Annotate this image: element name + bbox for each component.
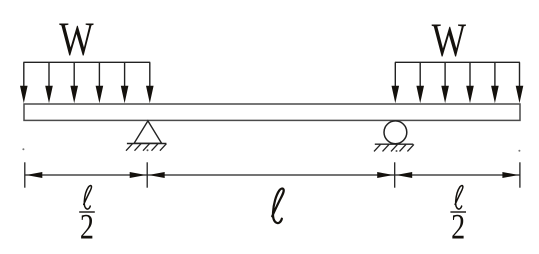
load left arrow 5 [121,62,129,103]
svg-text:2: 2 [451,206,465,246]
label l/2 left: fraction bar [79,211,95,213]
label l middle: ell [272,188,284,223]
label l/2 right: fraction bar [450,211,466,213]
dimension tick right end [519,162,521,187]
load right arrow 2 [416,62,424,103]
dimension tick left end [24,162,26,187]
dim arrow right span right [502,172,518,178]
dimension tick at roller [394,162,396,187]
roller support circle [384,121,407,144]
dim arrow left span left [26,172,42,178]
label l/2 right: ell numerator [455,186,463,209]
load left arrow 1 [20,62,28,103]
distributed load right: top line [395,61,520,63]
label l/2 left: ell numerator [84,186,92,209]
roller support ground line [375,143,413,145]
load left arrow 2 [45,62,53,103]
pin support ground line [127,143,166,145]
dim arrow mid span right [377,172,393,178]
load right arrow 1 [392,62,400,103]
load left arrow 3 [70,62,78,103]
speck right margin [518,150,520,152]
dim arrow right span left [396,172,412,178]
roller support hatching [374,144,414,151]
svg-text:2: 2 [80,206,94,246]
dimension line horizontal [25,174,520,176]
speck left margin [22,148,24,150]
speck below roller hatching [396,150,398,152]
svg-text:W: W [432,15,467,68]
load right arrow 5 [491,62,499,103]
pin support triangle [134,121,162,143]
svg-text:W: W [59,14,94,67]
load left arrow 4 [96,62,104,103]
distributed load left: top line [23,61,150,63]
load right arrow 4 [466,62,474,103]
beam [24,104,520,120]
load left arrow 6 [146,62,154,103]
dimension tick at pin [146,162,148,187]
pin support hatching [126,144,166,151]
load right arrow 6 [516,62,524,103]
speck below pin hatching [147,149,149,151]
load right arrow 3 [441,62,449,103]
dim arrow mid span left [148,172,164,178]
dim arrow left span right [130,172,146,178]
